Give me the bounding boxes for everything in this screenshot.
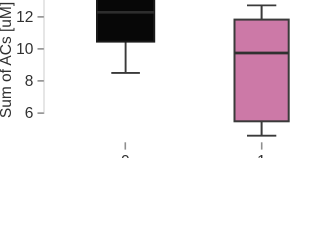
box 1 lower whisker (261, 121, 263, 135)
box 1 median line (235, 52, 289, 55)
box 1 upper whisker (261, 5, 263, 19)
y tick 10 (38, 48, 44, 50)
box 1 (pink box) (235, 20, 289, 122)
y tick 8 (38, 80, 44, 82)
y-axis spine (43, 0, 45, 114)
box 0 (black box, top cropped) (97, 0, 154, 42)
svg-text:1: 1 (257, 153, 266, 158)
box 0 median line (97, 11, 154, 14)
y tick 6 (38, 112, 44, 114)
svg-text:Sum of ACs [uM]: Sum of ACs [uM] (0, 2, 15, 118)
box 1 upper whisker cap (247, 4, 276, 6)
x tick 0 (124, 142, 126, 149)
box 0 lower whisker cap (111, 72, 140, 74)
box 0 lower whisker (125, 42, 127, 73)
x tick 1 (261, 142, 263, 149)
svg-text:10: 10 (16, 41, 34, 58)
y tick 12 (38, 16, 44, 18)
svg-text:12: 12 (16, 9, 33, 26)
svg-text:0: 0 (121, 153, 130, 158)
box 1 lower whisker cap (247, 135, 276, 137)
svg-text:8: 8 (25, 73, 34, 90)
svg-text:6: 6 (25, 105, 34, 122)
